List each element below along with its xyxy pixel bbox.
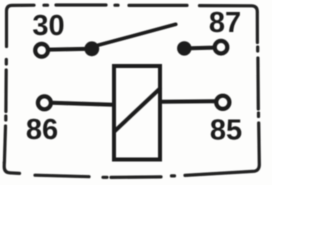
border bottom side dash segments <box>35 175 175 177</box>
svg-text:85: 85 <box>210 115 242 147</box>
border right side dash segments <box>256 47 260 117</box>
svg-text:86: 86 <box>26 114 58 146</box>
terminal 30 circle <box>35 44 48 57</box>
terminal 86 circle <box>38 96 51 109</box>
relay coil box <box>114 66 160 160</box>
node: common movable-contact dot <box>84 41 99 56</box>
border top-left corner with first dashes of top and left sides <box>7 5 35 46</box>
border bottom-left corner with adjoining dashes <box>4 163 19 174</box>
wire 86 to coil <box>52 103 115 105</box>
border left side dash segments <box>4 60 6 163</box>
wire dot to terminal 87 <box>190 46 214 51</box>
border bottom-right corner with adjoining dashes <box>185 123 259 175</box>
terminal 85 circle <box>216 96 229 109</box>
border top-right corner with adjoining dashes <box>200 6 258 43</box>
wire 30 to common dot <box>49 47 87 52</box>
svg-text:30: 30 <box>32 10 64 42</box>
svg-text:87: 87 <box>209 7 241 39</box>
node: fixed contact dot 87 <box>177 41 191 55</box>
coil diagonal stroke <box>114 89 160 132</box>
border top side dash segments <box>44 3 187 7</box>
wire coil to terminal 85 <box>160 99 215 104</box>
switch arm (open contact) <box>96 24 176 46</box>
terminal 87 circle <box>215 41 228 54</box>
